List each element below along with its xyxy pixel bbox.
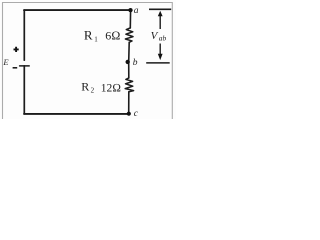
wire bottom: [24, 113, 130, 115]
frame border: [3, 3, 173, 122]
battery E plate: [20, 65, 30, 67]
svg-text:2: 2: [91, 87, 95, 95]
svg-text:12Ω: 12Ω: [101, 83, 122, 95]
wire right lower: [128, 92, 130, 114]
svg-text:ab: ab: [159, 34, 167, 43]
Vab bottom bar: [146, 62, 170, 64]
Vab bottom arrow shaft: [159, 44, 161, 55]
wire top: [24, 9, 130, 11]
svg-text:1: 1: [94, 36, 98, 44]
svg-text:6Ω: 6Ω: [105, 29, 120, 43]
resistor R2: [125, 78, 133, 92]
node b: [126, 60, 130, 64]
svg-text:b: b: [133, 58, 138, 68]
svg-text:R: R: [84, 28, 93, 43]
wire left upper: [23, 10, 25, 60]
wire right middle: [128, 42, 131, 62]
resistor R1: [125, 28, 133, 43]
Vab top arrowhead: [158, 11, 163, 17]
battery minus: [13, 67, 18, 69]
battery plus: [14, 47, 19, 52]
node a: [128, 8, 132, 12]
svg-text:E: E: [2, 57, 9, 67]
Vab top bar: [149, 8, 171, 10]
wire left lower: [23, 66, 25, 114]
Vab top arrow shaft: [159, 15, 161, 30]
wire right upper: [129, 10, 131, 28]
Vab bottom arrowhead: [158, 54, 163, 60]
node c: [127, 112, 131, 116]
wire node b to R2: [128, 62, 130, 78]
svg-text:R: R: [81, 80, 89, 94]
svg-text:a: a: [134, 6, 139, 16]
